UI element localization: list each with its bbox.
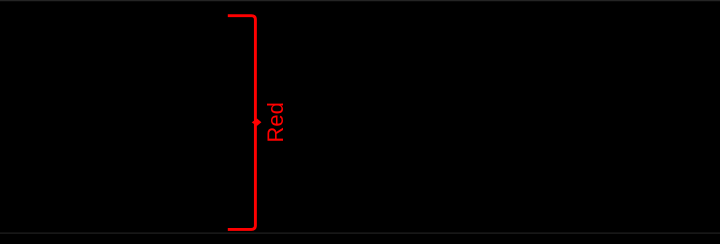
svg-text:Red: Red <box>263 102 288 142</box>
arrowhead pointing left at bracket middle <box>252 119 262 126</box>
faint top border line <box>0 0 720 2</box>
red square bracket <box>228 16 256 230</box>
faint bottom axis line <box>0 232 720 234</box>
